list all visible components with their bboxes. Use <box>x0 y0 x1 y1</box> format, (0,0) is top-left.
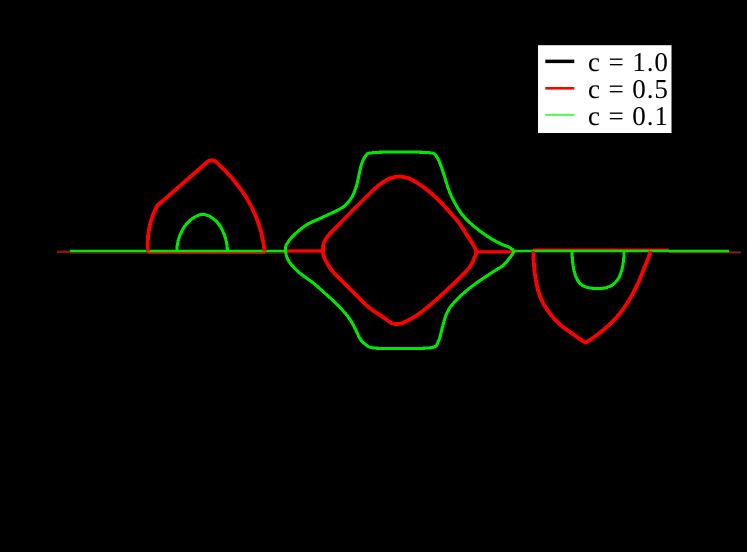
green contour left dome c=0.1 <box>177 214 228 252</box>
axis stub dark red left <box>57 251 70 254</box>
svg-text:c = 0.1: c = 0.1 <box>588 101 669 131</box>
legend sample line red c=0.5 <box>545 87 574 90</box>
legend sample line black c=1.0 <box>545 60 574 64</box>
svg-text:c = 0.5: c = 0.5 <box>588 74 669 104</box>
legend sample line green c=0.1 <box>545 114 574 116</box>
green axis left segment <box>70 250 287 253</box>
red contour left arch c=0.5 <box>148 160 265 251</box>
green contour middle big loop c=0.1 <box>285 152 513 349</box>
green contour right dome c=0.1 <box>572 252 624 289</box>
red axis segment right of red loop <box>476 250 514 253</box>
red contour middle loop c=0.5 <box>323 177 476 324</box>
svg-text:c = 1.0: c = 1.0 <box>588 47 669 77</box>
red axis under left arch <box>148 252 265 254</box>
red axis fringe under green left <box>70 252 287 254</box>
legend box <box>538 45 672 133</box>
red axis segment between green wing and red loop <box>286 249 325 252</box>
red axis above green at right bump <box>533 248 669 250</box>
dark red axis right end <box>669 251 741 253</box>
green axis right segment <box>513 250 729 253</box>
red contour right loop c=0.5 <box>533 251 650 343</box>
